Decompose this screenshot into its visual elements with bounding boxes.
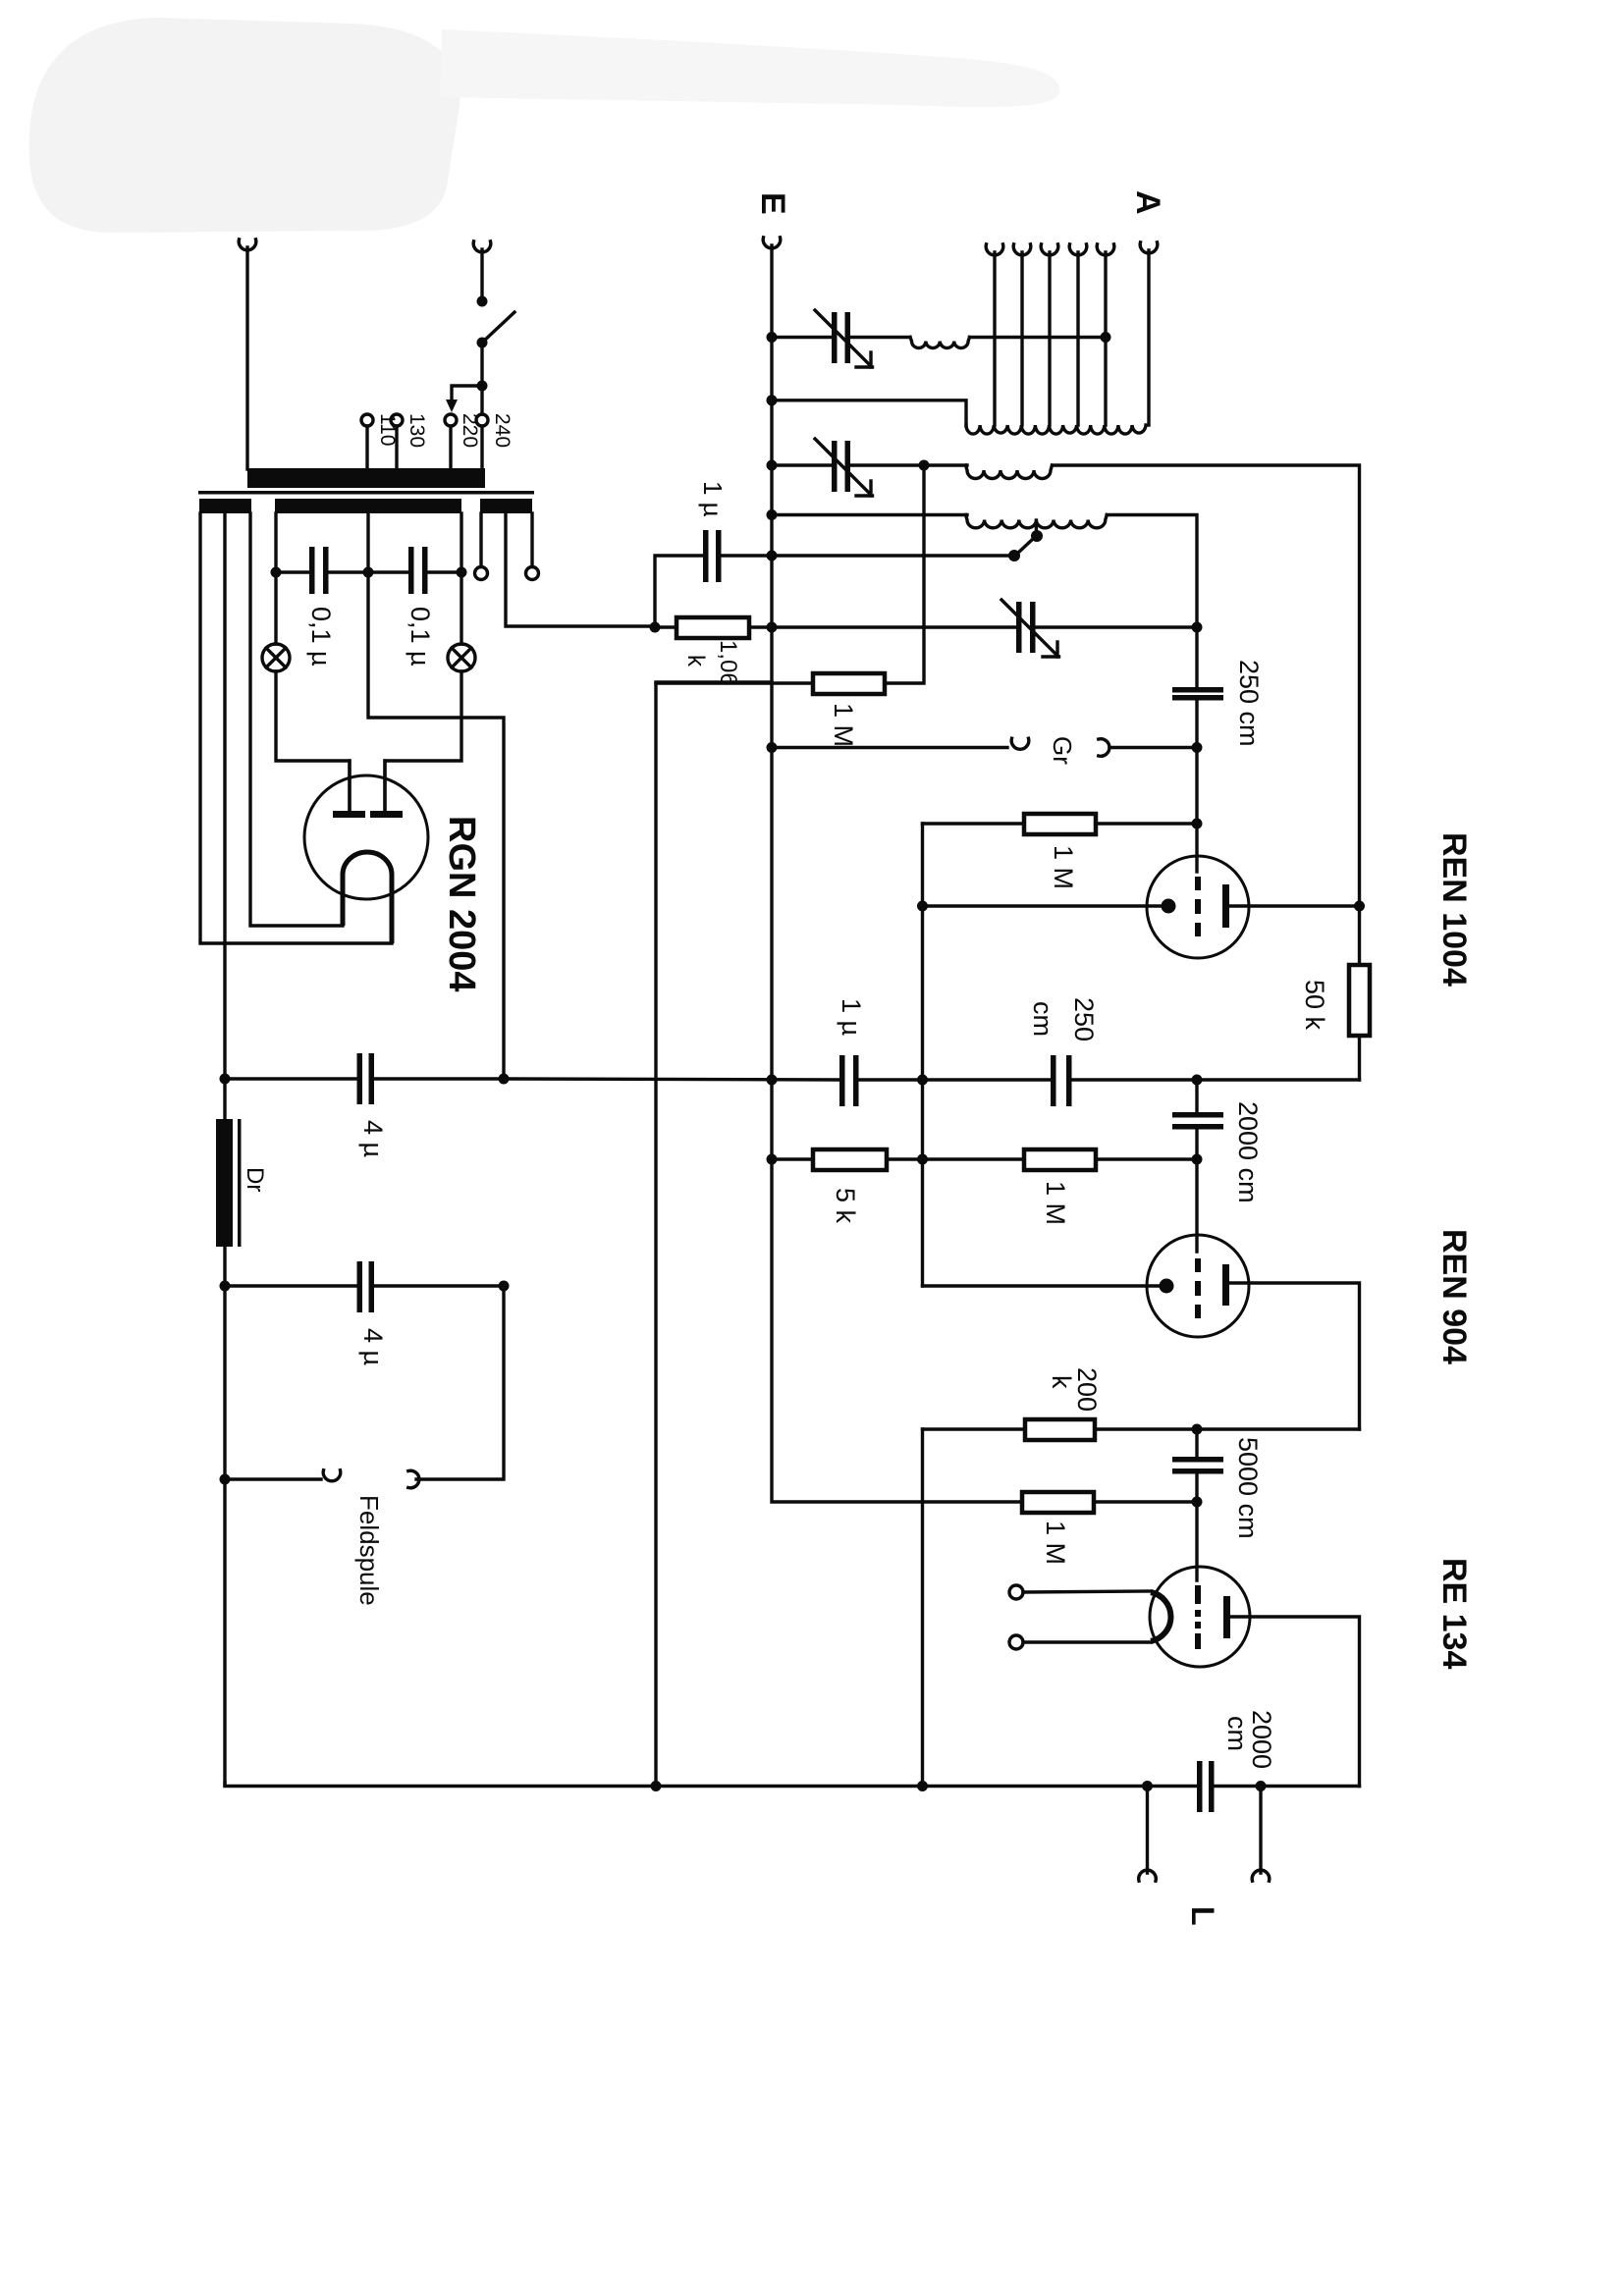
input terminal circle top: [1009, 1585, 1023, 1599]
V3 grid dashes: [1195, 1585, 1201, 1604]
node ground x668: [651, 1781, 662, 1791]
node E bus y1181: [767, 1154, 778, 1165]
wave switch S2 contact dot: [1008, 550, 1020, 561]
V3 filament arc: [1151, 1592, 1170, 1641]
node speaker left: [1142, 1781, 1153, 1791]
node E bus y639: [767, 622, 778, 633]
terminal Gr left: [1011, 738, 1029, 749]
wire C8 to Gr node: [1195, 701, 1198, 825]
capacitor C4 4u leads (row 1310): [225, 1284, 357, 1287]
antenna tap terminals: [986, 244, 1003, 255]
wire heater winding left: [274, 513, 277, 572]
svg-text:L: L: [1185, 1906, 1220, 1926]
trimmer C6 row wire: [772, 463, 831, 466]
terminal Gr right: [1099, 739, 1109, 757]
svg-text:RGN 2004: RGN 2004: [441, 816, 482, 992]
svg-text:240: 240: [491, 413, 514, 448]
trimmer C5 plates: [832, 312, 838, 363]
transformer T1 secondary bar HV: [199, 499, 251, 513]
switch S1 throw dot: [477, 338, 488, 348]
transformer T1 secondary bar heater2: [480, 499, 532, 513]
wire to speaker terminal right: [1259, 1787, 1262, 1874]
wire S2 to E bus: [772, 554, 1011, 557]
wire mains left to primary: [245, 247, 248, 469]
wire to Feldspule terminal left: [225, 1477, 321, 1480]
input terminal circle bottom: [1009, 1635, 1023, 1649]
wire heater winding centre: [366, 513, 369, 572]
V2 cathode dot: [1160, 1279, 1174, 1294]
V2 grid dashes: [1195, 1258, 1201, 1272]
svg-text:4 µ: 4 µ: [358, 1120, 388, 1157]
svg-text:A: A: [1129, 190, 1166, 215]
wave switch S2 pivot dot: [1031, 530, 1043, 542]
wire R6 to ground bus: [921, 1429, 924, 1787]
coupling capacitor C12 5000cm: [1195, 1429, 1198, 1457]
trimmer C5 arrow: [815, 310, 869, 364]
svg-text:1 M: 1 M: [1049, 845, 1078, 889]
svg-text:REN 904: REN 904: [1435, 1229, 1473, 1364]
svg-text:1 M: 1 M: [1041, 1181, 1070, 1225]
tap circle 240: [476, 414, 488, 426]
tube V2 REN 904 envelope: [1147, 1235, 1249, 1337]
wire heater2 centre to bias resistor: [506, 513, 655, 626]
capacitor C2 0.1u plates: [408, 547, 414, 594]
node heater left: [271, 567, 282, 578]
node row1100 x939: [917, 1075, 928, 1086]
wire L1 left end to E bus: [772, 400, 966, 426]
V1 cathode dot: [1162, 899, 1176, 914]
node grid V2: [1192, 1154, 1203, 1165]
wire E drop to ground: [656, 682, 772, 1787]
wire Gr row left: [772, 746, 1007, 749]
rectifier tube V4 RGN 2004 envelope: [304, 775, 428, 899]
wire E bus: [772, 245, 1022, 1502]
capacitor C1 0.1u leads: [276, 570, 309, 573]
V4 anode dome: [343, 852, 392, 943]
V1 grid dashes: [1195, 877, 1201, 890]
node ground x939: [917, 1781, 928, 1791]
V2 grid lead: [1195, 1159, 1198, 1252]
wire switch to selector node: [480, 343, 483, 386]
svg-text:50 k: 50 k: [1300, 980, 1329, 1031]
wire selector arm to 220 tap: [452, 386, 482, 401]
svg-text:130: 130: [406, 413, 428, 448]
capacitor C3 4u plates: [357, 1053, 363, 1104]
wire to grid coil: [924, 463, 967, 466]
terminal A: [1140, 242, 1158, 253]
node: voltage selector: [477, 381, 488, 392]
wire heater winding right: [460, 513, 462, 572]
wire from Feldspule terminal right: [416, 1286, 504, 1479]
V3 anode bar: [1223, 1596, 1230, 1638]
node row1181 x939: [917, 1154, 928, 1165]
svg-text:1 µ: 1 µ: [837, 998, 866, 1036]
wave switch S2 tap: [1035, 520, 1038, 533]
node antenna tap: [1101, 332, 1111, 343]
transformer T1 secondary bar heater1: [275, 499, 461, 513]
V4 filament bar right: [370, 811, 403, 818]
node E bus y566: [767, 551, 778, 561]
wire bus right of C14: [1215, 1785, 1360, 1788]
anode resistor R3 50k: [1358, 906, 1361, 965]
wire R2 to cathode node: [921, 824, 924, 1286]
wire heater centre tap to HT minus: [368, 572, 504, 1079]
tuning capacitor C7 row wire: [772, 625, 1017, 628]
V1 grid lead: [1195, 824, 1198, 872]
series antenna coil L2: [910, 338, 970, 348]
capacitor C10 250cm plates: [1051, 1055, 1056, 1106]
reaction coil L4: [966, 515, 1108, 528]
wire HV left end down: [200, 513, 392, 943]
transformer T1 primary winding bar: [247, 468, 485, 488]
tap circle 110: [361, 414, 373, 426]
grid resistor R5 1M: [1024, 1149, 1096, 1170]
choke Dr: [216, 1119, 233, 1247]
bypass capacitor C13 1u: [655, 556, 704, 627]
svg-text:0,1 µ: 0,1 µ: [306, 607, 336, 667]
trimmer C5 row wire: [772, 336, 831, 339]
lamp LP1 lower lead to filament: [276, 671, 350, 813]
lamp LP2 lower lead to filament: [385, 671, 461, 813]
node E bus y474: [767, 460, 778, 471]
node speaker right: [1256, 1781, 1267, 1791]
node cathode V1: [917, 901, 928, 912]
V2 anode lead: [1229, 1283, 1360, 1429]
input lead top: [1023, 1591, 1151, 1592]
svg-text:220: 220: [459, 413, 481, 448]
resistor R4 5k: [813, 1149, 887, 1170]
wire tap 220 lead: [449, 426, 452, 469]
terminal: mains input right: [473, 241, 491, 252]
grid resistor R2 1M: [1024, 814, 1096, 834]
wire to speaker terminal left: [1146, 1787, 1149, 1874]
grid coil L3: [966, 465, 1053, 479]
tap circle 220: [445, 414, 457, 426]
wire selector node to 240 tap: [480, 386, 483, 414]
grid resistor R7 1M: [1022, 1492, 1094, 1513]
svg-text:1 µ: 1 µ: [698, 481, 728, 517]
svg-text:REN 1004: REN 1004: [1435, 832, 1473, 987]
svg-text:Gr: Gr: [1048, 736, 1077, 765]
node choke bottom: [220, 1281, 231, 1292]
terminal E: [763, 238, 781, 248]
V1 anode bar: [1222, 884, 1229, 928]
svg-text:Feldspule: Feldspule: [354, 1495, 384, 1606]
wire mains right to switch: [480, 249, 483, 297]
input lead bottom: [1023, 1640, 1151, 1643]
tube V1 REN 1004 envelope: [1147, 856, 1249, 958]
switch S1 blade: [482, 312, 514, 343]
selector arrowhead: [446, 400, 458, 412]
node coupling V3: [1192, 1424, 1203, 1435]
grid capacitor C8 250cm plates: [1172, 687, 1223, 693]
node row1100 x1219: [1192, 1075, 1203, 1086]
wire Gr right: [1110, 746, 1197, 749]
terminal L right: [1252, 1870, 1270, 1881]
output capacitor C14 2000cm plates: [1197, 1761, 1203, 1812]
node anode V1: [1354, 901, 1365, 912]
node heater centre: [363, 567, 374, 578]
svg-text:1 M: 1 M: [829, 703, 858, 747]
terminal Feldspule right: [408, 1470, 419, 1488]
switch S1 pole dot: [477, 296, 488, 307]
wire L2 to tap: [970, 336, 1107, 339]
lamp LP2 lead: [460, 572, 462, 644]
wire choke to bottom bus: [223, 1079, 226, 1786]
wire tap 130 lead: [395, 426, 398, 469]
svg-text:5 k: 5 k: [831, 1188, 860, 1224]
svg-text:1 M: 1 M: [1041, 1521, 1070, 1565]
node HT+ row1099 at x513: [499, 1074, 510, 1085]
node choke top: [220, 1074, 231, 1085]
node E bus y1101: [767, 1075, 778, 1086]
wire L4 right end down: [1107, 515, 1197, 688]
V4 filament stems: [348, 761, 351, 811]
capacitor C4 4u plates: [357, 1261, 363, 1312]
V2 cathode lead: [923, 1284, 1165, 1287]
wire tap 110 lead: [365, 426, 368, 469]
svg-text:0,1 µ: 0,1 µ: [406, 607, 435, 667]
transformer T1 core line: [198, 491, 534, 495]
scan shadow blob (decorative): [29, 18, 1060, 233]
node grid junction V1: [1192, 819, 1203, 829]
anode resistor R6 200k row: [923, 1427, 1026, 1430]
node x513 row1310: [499, 1281, 510, 1292]
node Gr right: [1192, 742, 1203, 753]
svg-text:250 cm: 250 cm: [1234, 660, 1264, 747]
capacitor C1 0.1u plates: [309, 547, 315, 594]
svg-text:5000 cm: 5000 cm: [1233, 1437, 1263, 1539]
capacitor C9 1u plates: [839, 1055, 845, 1106]
node grid V3: [1192, 1497, 1203, 1508]
lamp LP1 lead: [274, 572, 277, 644]
node E bus y761: [767, 742, 778, 753]
heater output terminal 2: [530, 513, 533, 566]
wire HV centre tap (to choke): [223, 513, 226, 1079]
tap circle 130: [391, 414, 403, 426]
svg-text:2000 cm: 2000 cm: [1233, 1101, 1263, 1203]
wire HV right end down: [250, 513, 343, 926]
node E bus y343: [767, 332, 778, 343]
antenna tap wires: [993, 252, 996, 425]
node E bus y524: [767, 509, 778, 520]
coupling capacitor C11 2000cm: [1195, 1080, 1198, 1112]
antenna coil L1: [966, 425, 1146, 434]
detector leak R1a 1M row: [656, 681, 813, 684]
tuning capacitor C7 arrow: [1001, 600, 1055, 654]
capacitor C3 4u leads (row 1099): [225, 1077, 357, 1080]
node heater right: [457, 567, 467, 578]
V4 filament bar left: [333, 811, 365, 818]
lamp LP1: [262, 644, 290, 671]
V3 grid lead: [1195, 1502, 1198, 1580]
terminal Feldspule left: [323, 1470, 341, 1481]
terminal L left: [1139, 1870, 1157, 1881]
terminal: mains input left: [239, 240, 256, 250]
wire bottom bus left corner: [225, 1783, 1197, 1787]
tube V3 RE 134 envelope: [1150, 1567, 1250, 1667]
wire cathode V1: [923, 904, 1165, 907]
svg-text:RE 134: RE 134: [1435, 1558, 1473, 1669]
svg-text:4 µ: 4 µ: [358, 1328, 388, 1365]
node Feldspule left: [220, 1474, 231, 1485]
node grid coil / leak: [919, 460, 930, 471]
heater output terminal 1: [479, 513, 482, 566]
node tuned circuit top: [1192, 622, 1203, 633]
V1 anode lead: [1229, 904, 1360, 907]
bias resistor R1 1.06k: [650, 622, 661, 633]
wire tap 240 lead: [480, 426, 483, 469]
reaction coil L4 row wire: [772, 513, 967, 516]
svg-text:Dr: Dr: [242, 1167, 268, 1192]
wire antenna A down: [1147, 250, 1150, 425]
wave switch S2 blade: [1017, 539, 1033, 554]
trimmer C6 plates: [832, 441, 838, 492]
V3 anode lead: [1230, 1617, 1360, 1787]
V2 anode bar: [1222, 1264, 1229, 1306]
node E bus y408: [767, 395, 778, 405]
lamp LP2: [448, 644, 475, 671]
wire bias row 1181: [772, 1157, 813, 1160]
svg-text:E: E: [754, 192, 791, 215]
wire HT row 1100: [504, 1079, 840, 1080]
trimmer C6 arrow: [815, 439, 869, 493]
wire L3 to anode feedback: [1053, 465, 1360, 906]
tuning capacitor C7 plates: [1016, 602, 1022, 653]
